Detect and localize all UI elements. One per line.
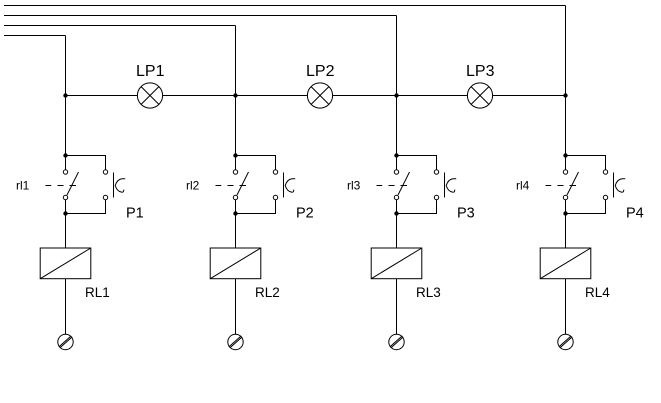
wire: supply feed line L2 xyxy=(4,15,397,17)
wire: branch 2 vertical bus to contact top terminal xyxy=(235,96,237,170)
node: branch 3 bus junction xyxy=(394,93,398,97)
relay coil RL1 xyxy=(40,248,91,279)
wire: lamp bus segment 1 xyxy=(66,95,138,97)
pushbutton P4 (NO pushbutton contact) xyxy=(603,170,625,200)
wire: branch 4 contact to relay coil RL4 xyxy=(565,200,567,248)
node: branch 2 bus junction xyxy=(233,93,237,97)
svg-text:rl3: rl3 xyxy=(347,179,361,193)
node: branch 2 contact top junction xyxy=(233,153,237,157)
wire: branch 3 supply drop from feed line to bus xyxy=(396,16,398,96)
svg-text:rl1: rl1 xyxy=(16,179,30,193)
lamp LP3 xyxy=(467,83,492,108)
wire: pushbutton P2 bottom link xyxy=(236,200,276,214)
wire: branch 3 contact to relay coil RL3 xyxy=(396,200,398,248)
wire: pushbutton P1 bottom link xyxy=(66,200,106,214)
wire: branch 1 vertical bus to contact top terminal xyxy=(65,96,67,170)
wire: branch 1 supply drop from feed line to bus xyxy=(65,36,67,96)
wire: coil RL1 to bottom terminal xyxy=(65,279,67,335)
node: branch 3 contact bottom junction xyxy=(394,211,398,215)
node: branch 1 contact top junction xyxy=(63,153,67,157)
node: branch 2 contact bottom junction xyxy=(233,211,237,215)
wire: branch 1 top link to pushbutton P1 xyxy=(66,156,106,170)
terminal/output symbol branch 4 (circle with double slash) xyxy=(558,334,573,349)
relay contact rl3 (NO contact with actuating dashes) xyxy=(377,170,410,200)
relay contact rl1 (NO contact with actuating dashes) xyxy=(46,170,79,200)
wire: branch 1 contact to relay coil RL1 xyxy=(65,200,67,248)
wire: coil RL4 to bottom terminal xyxy=(565,279,567,335)
lamp LP2 xyxy=(307,83,332,108)
relay contact rl4 (NO contact with actuating dashes) xyxy=(546,170,579,200)
svg-text:P1: P1 xyxy=(126,206,144,222)
relay coil RL2 xyxy=(210,248,261,279)
wire: coil RL3 to bottom terminal xyxy=(396,279,398,335)
wire: branch 3 top link to pushbutton P3 xyxy=(397,156,437,170)
node: branch 1 bus junction xyxy=(63,93,67,97)
wire: branch 2 contact to relay coil RL2 xyxy=(235,200,237,248)
lamp LP1 xyxy=(137,83,162,108)
svg-text:RL2: RL2 xyxy=(255,285,280,300)
terminal/output symbol branch 2 (circle with double slash) xyxy=(228,334,243,349)
svg-text:LP1: LP1 xyxy=(136,63,165,80)
wire: branch 2 top link to pushbutton P2 xyxy=(236,156,276,170)
svg-text:RL4: RL4 xyxy=(585,285,610,300)
node: branch 4 bus junction xyxy=(563,93,567,97)
wire: branch 2 supply drop from feed line to bus xyxy=(235,26,237,96)
wire: branch 4 supply drop from feed line to bus xyxy=(565,6,567,96)
wire: lamp bus segment 4 xyxy=(492,95,565,97)
wire: lamp bus segment 2 xyxy=(162,95,307,97)
svg-text:LP3: LP3 xyxy=(466,63,495,80)
wire: supply feed line L1 (top) xyxy=(4,5,566,7)
wire: pushbutton P3 bottom link xyxy=(397,200,437,214)
wire: branch 4 vertical bus to contact top terminal xyxy=(565,96,567,170)
pushbutton P3 (NO pushbutton contact) xyxy=(434,170,456,200)
svg-text:RL3: RL3 xyxy=(416,285,441,300)
svg-text:LP2: LP2 xyxy=(306,63,335,80)
node: branch 1 contact bottom junction xyxy=(63,211,67,215)
svg-text:rl4: rl4 xyxy=(516,179,530,193)
node: branch 4 contact top junction xyxy=(563,153,567,157)
pushbutton P1 (NO pushbutton contact) xyxy=(103,170,125,200)
svg-text:rl2: rl2 xyxy=(186,179,200,193)
svg-text:P3: P3 xyxy=(457,206,475,222)
wire: lamp bus segment 3 xyxy=(332,95,467,97)
relay coil RL4 xyxy=(540,248,591,279)
wire: supply feed line L4 xyxy=(4,35,66,37)
wire: supply feed line L3 xyxy=(4,25,236,27)
relay coil RL3 xyxy=(371,248,422,279)
relay contact rl2 (NO contact with actuating dashes) xyxy=(216,170,249,200)
svg-text:RL1: RL1 xyxy=(85,285,110,300)
node: branch 4 contact bottom junction xyxy=(563,211,567,215)
wire: coil RL2 to bottom terminal xyxy=(235,279,237,335)
svg-text:P2: P2 xyxy=(296,206,314,222)
terminal/output symbol branch 3 (circle with double slash) xyxy=(389,334,404,349)
node: branch 3 contact top junction xyxy=(394,153,398,157)
wire: pushbutton P4 bottom link xyxy=(566,200,606,214)
wire: branch 3 vertical bus to contact top terminal xyxy=(396,96,398,170)
svg-text:P4: P4 xyxy=(626,206,644,222)
pushbutton P2 (NO pushbutton contact) xyxy=(273,170,295,200)
terminal/output symbol branch 1 (circle with double slash) xyxy=(58,334,73,349)
wire: branch 4 top link to pushbutton P4 xyxy=(566,156,606,170)
